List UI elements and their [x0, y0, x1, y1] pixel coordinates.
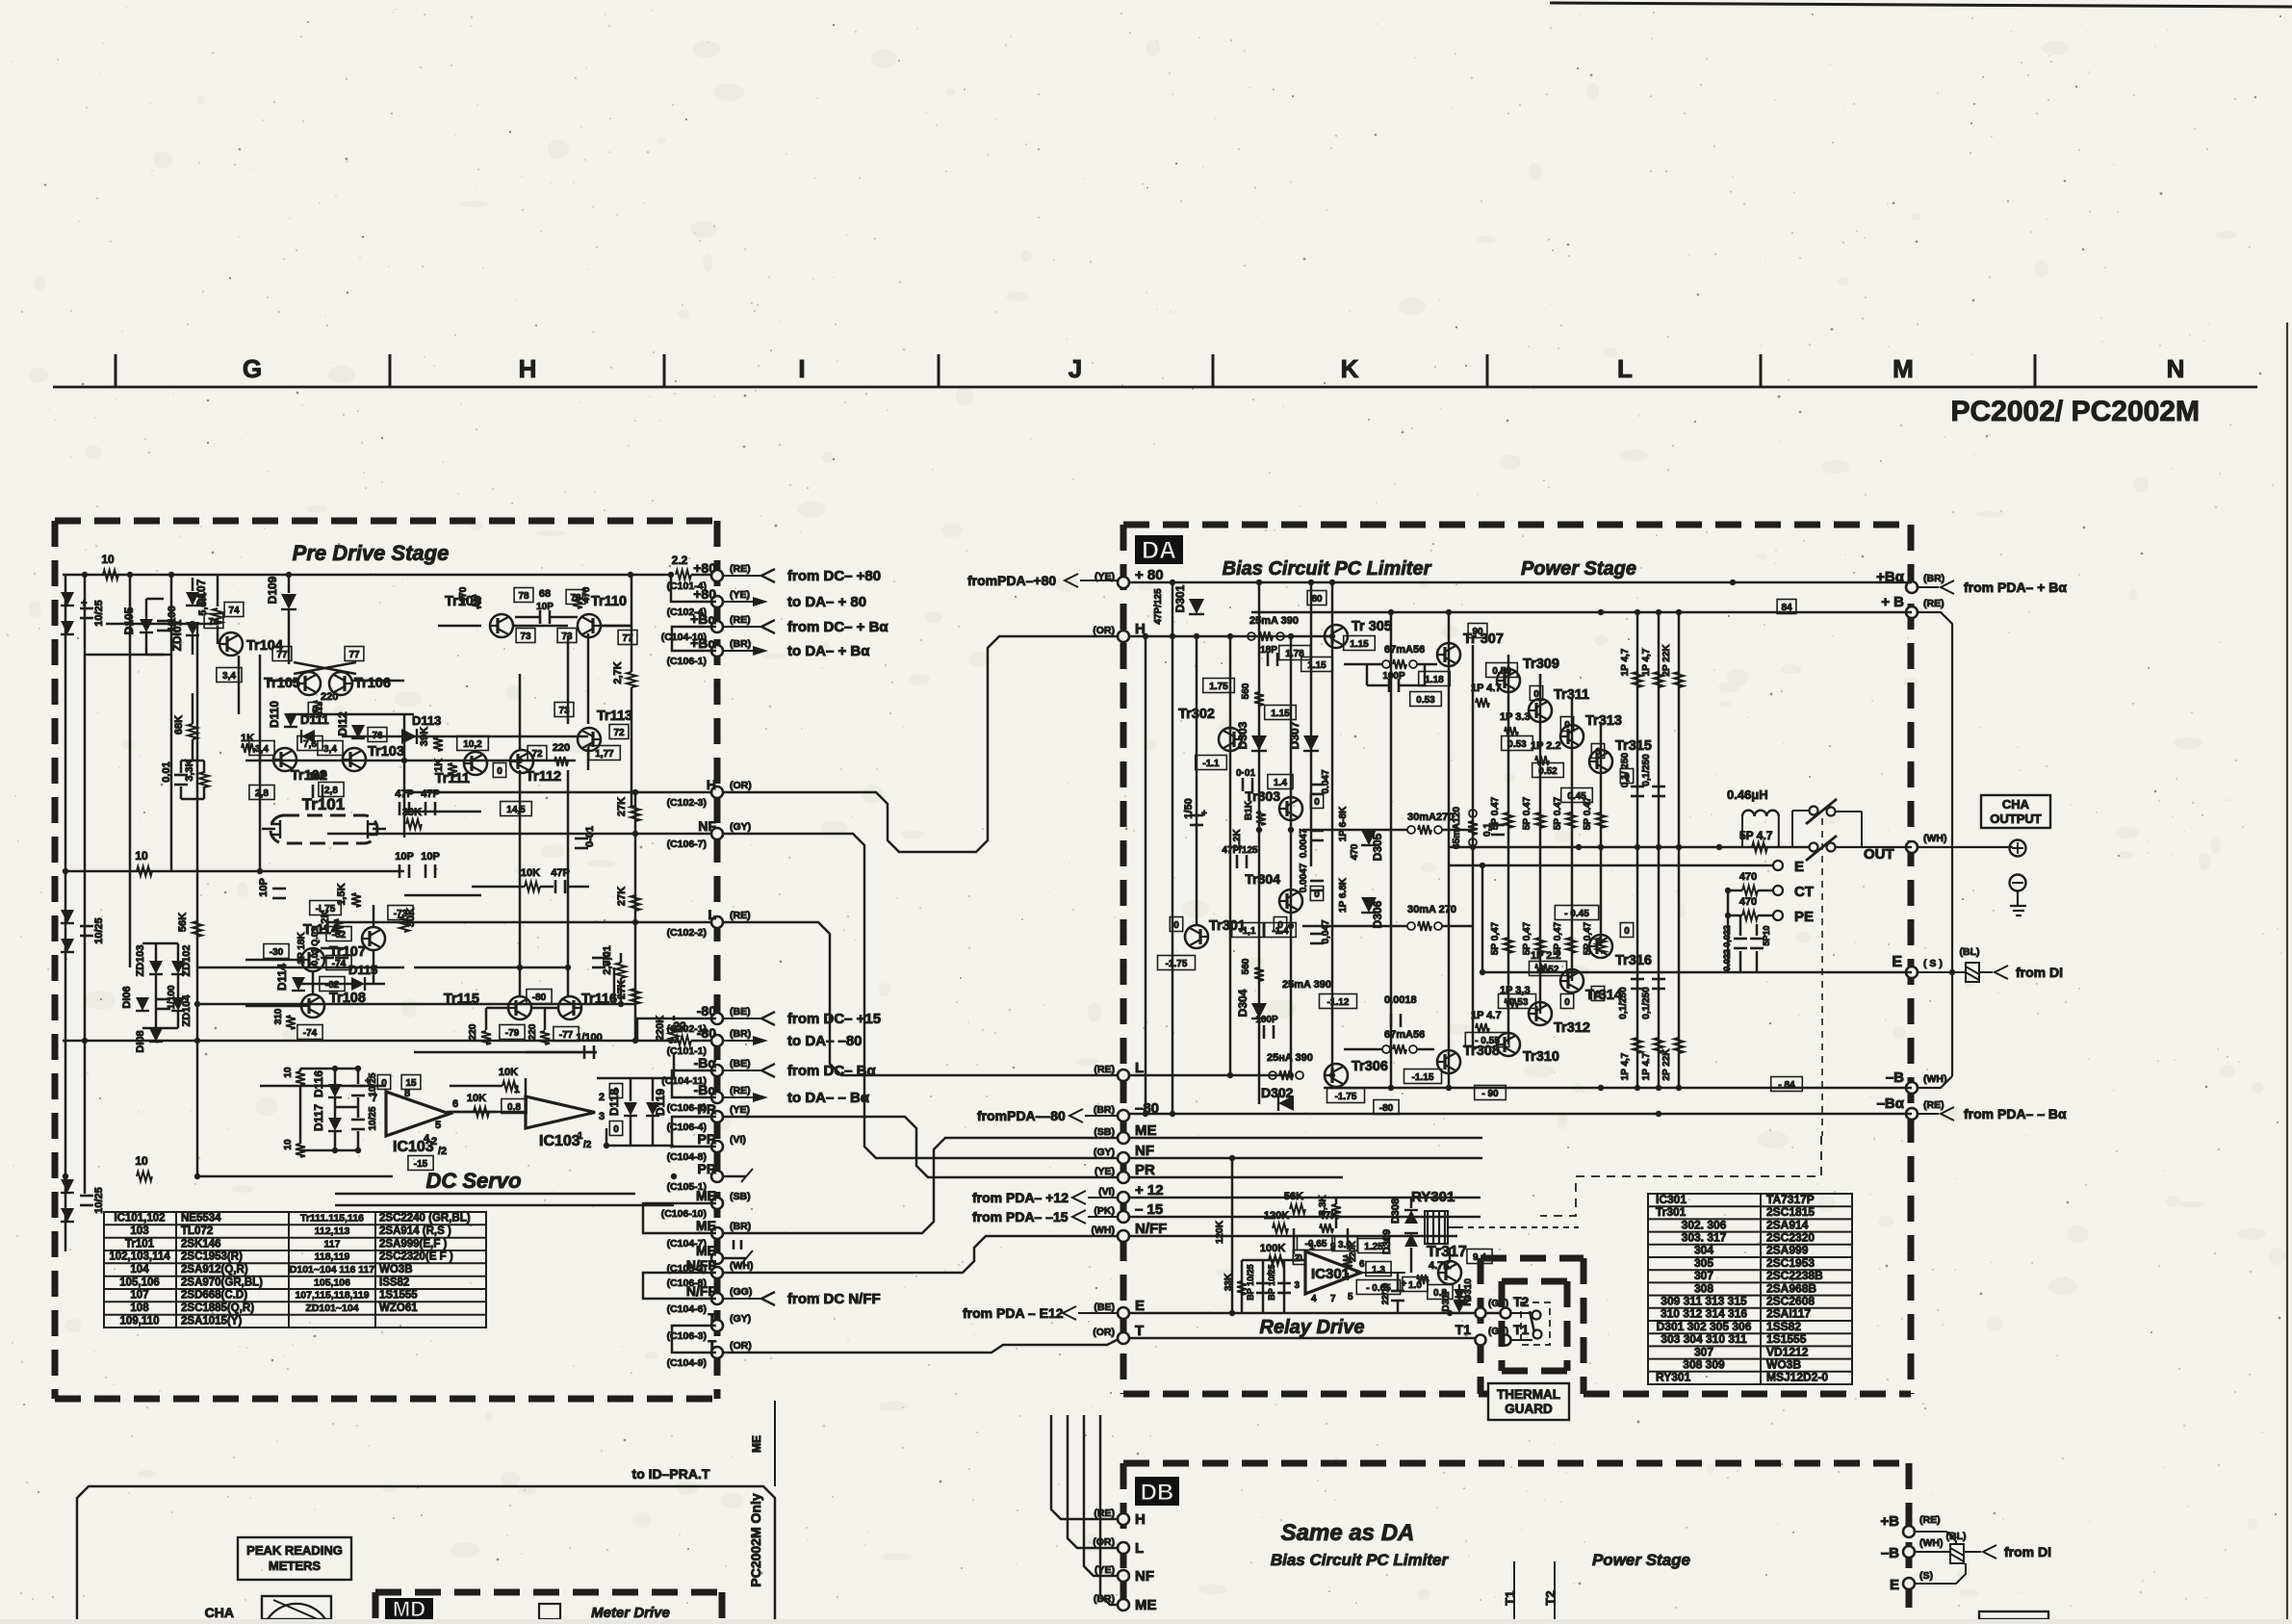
svg-text:(BR): (BR) — [730, 1028, 751, 1040]
connector L (C102-2) — [711, 916, 723, 928]
resistor 220 c — [481, 1031, 491, 1044]
boxed value 1.75 a — [1279, 646, 1311, 660]
svg-text:ME: ME — [696, 1188, 716, 1203]
boxed value 3.4 Tr104 — [217, 668, 242, 683]
svg-text:1.75: 1.75 — [1209, 682, 1228, 692]
svg-text:308: 308 — [1694, 1281, 1713, 1295]
thermal switch — [1532, 1311, 1541, 1320]
transistor Tr317 — [1438, 1261, 1461, 1284]
svg-text:56K: 56K — [1284, 1191, 1303, 1202]
wire vertical DA x1600 — [1539, 674, 1542, 1014]
DB box dashed border — [1123, 1463, 1909, 1619]
wire +B rail DA — [1251, 611, 1912, 614]
svg-text:2SA912(Q,R): 2SA912(Q,R) — [181, 1264, 248, 1276]
svg-text:2: 2 — [599, 1092, 605, 1103]
svg-text:470: 470 — [458, 586, 469, 603]
wire DB L — [1068, 1415, 1118, 1548]
transistor Tr306 — [1325, 1064, 1348, 1087]
capacitor 10/25 e — [351, 1119, 365, 1121]
svg-text:(BL): (BL) — [1960, 946, 1980, 958]
DA connector +B right — [1906, 606, 1918, 618]
capacitor 1/100 a — [157, 620, 170, 623]
meter drive small square — [539, 1604, 560, 1619]
svg-text:73: 73 — [561, 632, 573, 642]
svg-text:(YE): (YE) — [1094, 1166, 1115, 1177]
svg-text:5P10: 5P10 — [1762, 925, 1771, 945]
connector T1 b — [1501, 1335, 1511, 1346]
svg-text:47P: 47P — [551, 867, 570, 879]
svg-text:(RE): (RE) — [730, 1085, 751, 1096]
svg-text:NF: NF — [1135, 1143, 1154, 1159]
svg-text:2,7K: 2,7K — [612, 661, 624, 683]
svg-text:3,3K: 3,3K — [184, 759, 195, 781]
svg-text:5P 0,47: 5P 0,47 — [1553, 921, 1563, 955]
svg-text:104: 104 — [130, 1264, 149, 1276]
svg-text:-L75: -L75 — [316, 904, 336, 915]
DB connector E — [1903, 1578, 1915, 1589]
svg-text:(C106-1): (C106-1) — [667, 656, 707, 667]
wire vertical DA x1445 — [1390, 612, 1393, 1088]
svg-text:-1.15: -1.15 — [1412, 1072, 1434, 1083]
svg-text:(VI): (VI) — [730, 1134, 746, 1146]
label to DA--80 — [723, 1040, 753, 1042]
svg-text:CHA: CHA — [205, 1605, 234, 1619]
svg-text:25mA 390: 25mA 390 — [1282, 979, 1331, 991]
svg-text:1P 4.7: 1P 4.7 — [1471, 1010, 1502, 1021]
boxed value 0 t314 — [1591, 987, 1604, 1001]
svg-text:305: 305 — [1694, 1256, 1713, 1270]
svg-text:ZD103: ZD103 — [135, 944, 146, 976]
wire DB NF — [1084, 1415, 1118, 1576]
svg-text:T: T — [708, 1310, 716, 1326]
svg-text:-73: -73 — [394, 909, 408, 919]
svg-text:from DI: from DI — [2004, 1544, 2051, 1560]
svg-text:(C102-3): (C102-3) — [667, 797, 707, 809]
stub wire C105-1 — [723, 1175, 746, 1178]
zener ZD102 — [171, 961, 185, 974]
svg-text:-74: -74 — [332, 959, 347, 969]
svg-text:D111: D111 — [300, 712, 329, 727]
wire servo bottom bus — [197, 1175, 393, 1178]
connector H (C102-3) — [711, 786, 723, 798]
boxed value 90 a — [1468, 624, 1487, 638]
PEAK READING METERS box — [238, 1537, 351, 1580]
u-turn wire -80 BE — [637, 1018, 716, 1041]
output minus terminal — [2010, 875, 2026, 891]
svg-text:(WH): (WH) — [730, 1260, 754, 1272]
label from PDA--Ba — [1941, 1107, 1954, 1121]
svg-text:470: 470 — [1739, 896, 1757, 908]
wire vertical x590 — [567, 635, 570, 724]
svg-text:TL072: TL072 — [181, 1225, 213, 1237]
svg-text:304: 304 — [1694, 1244, 1713, 1257]
svg-text:Tr 307: Tr 307 — [1463, 632, 1504, 647]
svg-text:1/100: 1/100 — [167, 985, 177, 1009]
svg-text:18P: 18P — [1260, 645, 1277, 656]
output plus terminal — [2010, 840, 2026, 857]
wire vertical x420 — [403, 714, 406, 838]
boxed value 1.0 — [1403, 1277, 1428, 1292]
svg-text:470: 470 — [1739, 871, 1757, 883]
resistor 220 Tr102 — [313, 701, 322, 714]
wire vertical x205 — [196, 624, 199, 1176]
boxed value 1.18 — [1419, 672, 1451, 686]
svg-text:5,6K: 5,6K — [197, 593, 209, 615]
capacitor 10/25 d — [351, 1085, 365, 1088]
boxed value 0.45 a — [1561, 788, 1593, 803]
wire y1093 — [414, 1051, 597, 1054]
svg-text:to DA– + Bα: to DA– + Bα — [787, 643, 870, 659]
svg-text:2SC1953(R): 2SC1953(R) — [181, 1251, 243, 1263]
svg-text:from PDA– – Bα: from PDA– – Bα — [1964, 1106, 2067, 1121]
svg-text:Tr316: Tr316 — [1615, 953, 1652, 968]
svg-text:0.52: 0.52 — [1538, 766, 1558, 777]
resistor 1.5K — [351, 893, 361, 907]
svg-text:0,1/250: 0,1/250 — [1641, 987, 1652, 1019]
capacitor 47P c — [554, 880, 557, 893]
wire vertical DA x1308 — [1258, 582, 1261, 1104]
boxed value -1.1 b — [1232, 923, 1264, 938]
svg-text:– 15: – 15 — [1135, 1201, 1163, 1218]
resistor 470 pe — [1742, 911, 1758, 920]
svg-text:1P 4,7: 1P 4,7 — [1641, 648, 1652, 676]
diode D102 bridge — [61, 910, 74, 923]
wire vertical x88 — [84, 575, 87, 1194]
resistor 47K — [1320, 1224, 1333, 1233]
label from PDA-+Ba — [1941, 580, 1954, 594]
connector ME (C105-2) — [711, 1252, 723, 1264]
u-turn wire C106-3 C104-9 — [672, 1326, 716, 1353]
svg-text:2SC2320: 2SC2320 — [1766, 1231, 1815, 1245]
svg-text:1S1555: 1S1555 — [379, 1290, 418, 1302]
resistor 56K — [193, 921, 202, 937]
resistor 10 servo a — [296, 1071, 305, 1085]
boxed value 1.3 — [1366, 1262, 1391, 1276]
capacitor 0.0047 b — [1310, 880, 1324, 883]
transistor Tr115 — [508, 996, 531, 1019]
svg-text:3: 3 — [599, 1111, 605, 1122]
svg-text:N/FF: N/FF — [686, 1283, 717, 1299]
svg-text:DI06: DI06 — [121, 986, 133, 1008]
svg-text:+ 12: + 12 — [1135, 1182, 1164, 1199]
svg-text:1P 3.3: 1P 3.3 — [1500, 711, 1531, 723]
wire vertical x270 — [259, 655, 262, 871]
svg-text:Tr309: Tr309 — [1523, 657, 1559, 672]
svg-text:1: 1 — [1309, 1242, 1315, 1252]
boxed value -77 — [554, 1027, 579, 1042]
svg-text:L: L — [1617, 354, 1633, 383]
svg-text:10: 10 — [283, 1139, 294, 1150]
svg-text:-80: -80 — [697, 1025, 716, 1041]
svg-text:1.78: 1.78 — [1285, 649, 1304, 659]
svg-text:1,77: 1,77 — [595, 749, 614, 760]
label from DI DB — [1983, 1545, 1996, 1559]
svg-text:220: 220 — [468, 1023, 478, 1040]
diode D301 — [1189, 599, 1204, 614]
svg-text:2SA914 (R,S ): 2SA914 (R,S ) — [379, 1225, 451, 1237]
svg-text:2SA914: 2SA914 — [1766, 1218, 1809, 1231]
svg-text:109,110: 109,110 — [120, 1315, 160, 1327]
wire Tr109 Tr110 rail — [438, 625, 481, 628]
boxed value -0.53 — [1499, 994, 1536, 1009]
svg-text:9: 9 — [1330, 1242, 1336, 1252]
transistor Tr312 — [1529, 1002, 1552, 1025]
DA connector E — [1118, 1307, 1129, 1319]
MD tag — [385, 1598, 433, 1619]
svg-text:0: 0 — [1564, 997, 1570, 1008]
connector +B&#945; (C104-10) — [711, 621, 723, 632]
svg-text:2P 22K: 2P 22K — [1661, 644, 1672, 677]
boxed value 0.53 a — [1410, 692, 1442, 707]
wire CT PE feed — [1727, 890, 1730, 972]
svg-text:8: 8 — [404, 1088, 410, 1099]
boxed value 0 t313 — [1591, 744, 1604, 759]
capacitor 0.01 da — [1242, 778, 1245, 791]
svg-text:1P 2.2: 1P 2.2 — [1531, 740, 1561, 752]
transistor Tr313 — [1560, 725, 1584, 748]
wire vertical DA x1218 — [1172, 582, 1174, 1114]
svg-text:Relay Drive: Relay Drive — [1260, 1317, 1365, 1338]
wire y905 — [63, 870, 404, 873]
svg-text:2SC2240 (GR,BL): 2SC2240 (GR,BL) — [379, 1213, 471, 1224]
resistor 220 b — [554, 757, 568, 766]
wire IC301 out — [1355, 1272, 1405, 1274]
capacitor 100P b — [1263, 1025, 1266, 1039]
svg-text:N: N — [2167, 354, 2185, 383]
boxed value 77 a — [272, 647, 292, 661]
transistor Tr305 — [1325, 625, 1348, 648]
svg-text:E: E — [1890, 1577, 1899, 1593]
svg-text:1/100: 1/100 — [576, 1032, 603, 1044]
DA connector -Ba right — [1906, 1108, 1918, 1120]
svg-text:from DC– +15: from DC– +15 — [787, 1011, 881, 1027]
svg-text:2SA999: 2SA999 — [1766, 1244, 1809, 1257]
svg-text:0.8: 0.8 — [507, 1102, 521, 1113]
capacitor 18P — [1267, 653, 1270, 666]
wire vertical DA x1243 — [1196, 636, 1198, 925]
capacitor 0.01 d — [592, 957, 605, 960]
resistor 27K a — [631, 806, 640, 821]
svg-text:120K: 120K — [1264, 1210, 1289, 1222]
wire opamp2 out — [525, 1078, 528, 1096]
svg-text:118,119: 118,119 — [315, 1251, 350, 1263]
diode D118 — [624, 1102, 637, 1116]
boxed value -1.1 a — [1196, 756, 1227, 770]
svg-text:1P 3,3: 1P 3,3 — [1500, 985, 1531, 996]
diode D101 bridge — [61, 592, 74, 606]
boxed value 0 t301 — [1170, 917, 1182, 932]
svg-text:DI08: DI08 — [135, 1030, 146, 1052]
wire vertical DA x1278 — [1229, 636, 1232, 1075]
boxed value 3.0 — [1332, 1237, 1357, 1251]
zener ZD104 — [171, 997, 185, 1011]
transistor Tr304 — [1279, 889, 1302, 913]
svg-text:D309: D309 — [1381, 1229, 1393, 1254]
svg-text:560: 560 — [1241, 958, 1251, 974]
svg-text:30K: 30K — [402, 807, 422, 818]
capacitor BP10/25 b — [1277, 1282, 1291, 1285]
svg-text:2SC1885(Q,R): 2SC1885(Q,R) — [181, 1302, 254, 1314]
DB connector -B — [1903, 1546, 1915, 1558]
connector -80 (C102-1) — [711, 1013, 723, 1024]
diode D110 — [284, 713, 297, 727]
svg-text:PR: PR — [698, 1101, 716, 1117]
svg-text:OUT: OUT — [1864, 846, 1894, 863]
boxed value 76 — [368, 728, 387, 742]
boxed value -1.75 a — [310, 901, 342, 915]
junction dots left box — [82, 572, 88, 578]
svg-text:MSJ12D2-0: MSJ12D2-0 — [1766, 1371, 1828, 1384]
capacitor 0.022 pair — [1734, 938, 1747, 941]
resistor 10K servo — [502, 1081, 518, 1091]
resistor 30K b — [399, 916, 409, 932]
capacitor 0.047 b — [1310, 933, 1324, 936]
svg-text:10: 10 — [283, 1067, 294, 1078]
boxed value 73 a — [516, 629, 535, 643]
resistor 1K b — [448, 763, 457, 777]
svg-text:1P 6.8K: 1P 6.8K — [1338, 877, 1349, 913]
svg-text:0,047: 0,047 — [1321, 919, 1331, 943]
DA connector &#8211; 15 — [1118, 1211, 1129, 1223]
boxed value -30 — [264, 944, 289, 959]
Pre Drive Stage dashed border — [55, 521, 717, 1399]
svg-text:47P: 47P — [395, 788, 414, 800]
connector N/FF (C104-6) — [711, 1293, 723, 1304]
svg-text:65mA120: 65mA120 — [1452, 807, 1462, 849]
svg-text:(RE): (RE) — [730, 910, 751, 921]
wire vertical DA x1190 — [1145, 636, 1147, 1114]
wire N/FF to DA — [723, 1236, 1121, 1273]
diode D105 — [140, 619, 153, 632]
svg-text:10/25: 10/25 — [93, 917, 105, 944]
svg-text:74: 74 — [228, 606, 240, 616]
svg-text:J: J — [1069, 354, 1082, 383]
svg-text:T: T — [1135, 1323, 1144, 1339]
svg-text:107: 107 — [130, 1290, 148, 1302]
scan edge mark top right — [1550, 3, 2292, 7]
resistor 27K b — [631, 895, 640, 911]
wire vertical 27K column — [634, 792, 637, 1041]
svg-text:(RE): (RE) — [730, 614, 751, 626]
svg-text:D303: D303 — [1236, 721, 1249, 749]
svg-text:67mA56: 67mA56 — [1384, 644, 1425, 656]
svg-text:27K: 27K — [616, 887, 628, 906]
svg-text:( S ): ( S ) — [1923, 958, 1943, 969]
wire vertical x611 — [587, 633, 590, 724]
boxed value -0.65 a — [1298, 1236, 1335, 1250]
svg-text:(YE): (YE) — [1094, 1564, 1115, 1576]
svg-text:10P: 10P — [308, 771, 327, 783]
svg-text:2SD668(C.D): 2SD668(C.D) — [181, 1290, 247, 1302]
resistor 560 b — [1254, 967, 1264, 981]
svg-text:Bias Circuit PC Limiter: Bias Circuit PC Limiter — [1223, 558, 1432, 580]
svg-text:72: 72 — [531, 749, 543, 760]
op-amp IC103 1/2 — [526, 1096, 595, 1128]
resistor 10 low — [137, 1172, 152, 1181]
svg-text:Tr312: Tr312 — [1554, 1020, 1590, 1036]
svg-text:(WH): (WH) — [1092, 1224, 1116, 1236]
terminal PE — [1773, 911, 1783, 920]
connector PR (C104-8) — [711, 1141, 723, 1152]
svg-text:-74: -74 — [303, 1028, 318, 1039]
svg-text:(VI): (VI) — [1098, 1186, 1115, 1198]
wire y843 caps row — [404, 811, 481, 813]
capacitor 10P d — [425, 864, 427, 878]
boxed value -1.75 da — [1327, 1089, 1365, 1103]
svg-text:+Bα: +Bα — [690, 611, 716, 627]
boxed value -0.55 — [1465, 1033, 1508, 1047]
wire Tr107 col — [312, 971, 315, 994]
svg-text:Tr116: Tr116 — [581, 992, 617, 1007]
svg-text:5P 0.47: 5P 0.47 — [1522, 796, 1532, 830]
svg-text:5P 0.47: 5P 0.47 — [1490, 796, 1501, 830]
svg-text:ZD101~104: ZD101~104 — [305, 1302, 358, 1314]
svg-text:IC103: IC103 — [539, 1133, 580, 1149]
ruler tick 6 — [1486, 354, 1489, 387]
svg-text:D306: D306 — [1371, 900, 1384, 928]
svg-text:4: 4 — [424, 1133, 430, 1145]
capacitor 10/25 c — [80, 1195, 93, 1198]
label from DI DA — [1995, 966, 2008, 979]
svg-text:2SA1015(Y): 2SA1015(Y) — [181, 1315, 242, 1327]
boxed value 0.8 — [502, 1099, 527, 1114]
resistor 3.3K relay — [1331, 1204, 1341, 1218]
svg-text:WO3B: WO3B — [379, 1264, 413, 1276]
capacitor 22/10 — [1391, 1290, 1404, 1293]
svg-text:(OR): (OR) — [730, 780, 752, 791]
svg-text:(C104-9): (C104-9) — [667, 1357, 707, 1369]
boxed value 0.58 — [1486, 663, 1518, 678]
transistor Tr301 — [1185, 925, 1208, 948]
svg-text:Tr315: Tr315 — [1615, 738, 1652, 754]
boxed value 0 relay — [1293, 1250, 1305, 1265]
wire DB H — [1051, 1415, 1118, 1519]
svg-text:73: 73 — [520, 632, 531, 642]
svg-text:-1.12: -1.12 — [1327, 997, 1350, 1008]
boxed value -74 b — [326, 956, 351, 970]
svg-text:7,6: 7,6 — [303, 739, 317, 750]
diode D115 — [351, 977, 365, 991]
svg-text:N/FF: N/FF — [1135, 1221, 1167, 1237]
svg-text:3,4: 3,4 — [255, 744, 269, 755]
svg-text:–Bα: –Bα — [1877, 1096, 1905, 1112]
wire vertical x638 — [613, 967, 616, 1004]
svg-text:100P: 100P — [1382, 671, 1405, 682]
svg-text:D116: D116 — [312, 1070, 325, 1097]
diode D308 — [1404, 1210, 1418, 1224]
wire DB E — [1915, 1563, 1966, 1584]
svg-text:Tr317: Tr317 — [1427, 1244, 1467, 1260]
boxed value 79 — [514, 588, 533, 603]
thin dashed line around table — [1540, 1136, 1821, 1216]
diode D106 — [136, 997, 149, 1011]
svg-text:N/FF: N/FF — [686, 1257, 717, 1273]
boxed value 2.8 a — [249, 786, 274, 800]
svg-text:56K: 56K — [177, 913, 189, 932]
svg-text:2: 2 — [1294, 1253, 1300, 1264]
svg-text:5: 5 — [1348, 1292, 1353, 1302]
svg-text:Tr105: Tr105 — [264, 676, 300, 691]
wire E rail DA — [1129, 1312, 1502, 1315]
boxed value 14.5 — [501, 802, 532, 816]
svg-text:(RE): (RE) — [1094, 1064, 1115, 1075]
DB connector H — [1118, 1513, 1129, 1525]
svg-text:10/25: 10/25 — [368, 1106, 378, 1130]
diode D311 — [1454, 1289, 1465, 1301]
wire DB T1 — [1513, 1561, 1515, 1619]
svg-text:-1,1: -1,1 — [1239, 926, 1256, 937]
wire PR to DA — [723, 1117, 1121, 1177]
